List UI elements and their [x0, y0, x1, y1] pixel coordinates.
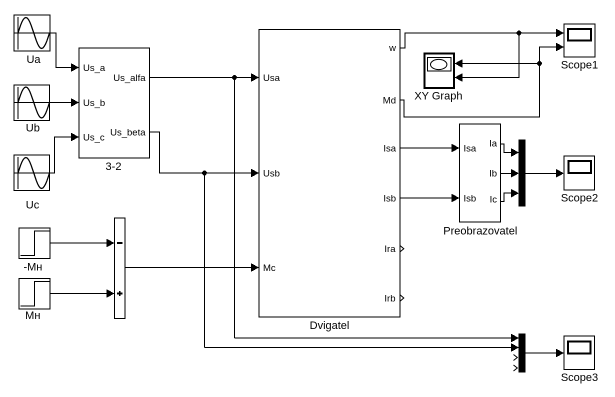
wire Ua to Us_a	[50, 33, 79, 72]
scope Scope2	[564, 156, 595, 190]
step source Mn	[19, 279, 50, 310]
unconnected port Ira	[400, 246, 404, 252]
junction on Usb wire	[202, 171, 207, 176]
svg-text:Isb: Isb	[464, 194, 477, 205]
wire w to Scope1 input 1	[400, 29, 564, 48]
wire Ia to mux2	[501, 144, 520, 157]
converter block Preobrazovatel	[460, 124, 501, 222]
wire Usa branch down to mux3 input 1	[234, 78, 236, 339]
svg-text:Ia: Ia	[489, 139, 498, 150]
wire Us_beta to Usb	[150, 132, 260, 177]
mux2	[519, 140, 525, 206]
svg-text:Scope1: Scope1	[561, 60, 598, 72]
svg-text:Isb: Isb	[383, 194, 396, 205]
svg-text:Usa: Usa	[263, 73, 281, 84]
svg-text:Us_beta: Us_beta	[110, 128, 146, 139]
svg-text:Md: Md	[383, 96, 396, 107]
wire Isb to Preobrazovatel	[400, 194, 460, 203]
svg-text:-Мн: -Мн	[23, 261, 42, 273]
svg-text:Мн: Мн	[25, 310, 40, 322]
sum block	[115, 218, 126, 319]
unconnected mux3 input 4	[514, 365, 518, 371]
svg-text:Scope3: Scope3	[561, 372, 598, 384]
wire Ub to Us_b	[50, 98, 80, 107]
wire mux2 to Scope2	[525, 169, 564, 178]
XY Graph block	[425, 54, 455, 89]
wire Us_alfa to Usa	[150, 73, 260, 82]
svg-text:Mc: Mc	[263, 263, 276, 274]
scope Scope3	[564, 336, 595, 370]
sine source Ua	[14, 15, 50, 51]
wire Usb branch down to mux3 input 2	[204, 173, 206, 348]
svg-text:w: w	[388, 43, 396, 54]
svg-text:Us_c: Us_c	[83, 133, 105, 144]
wire Ib to mux2	[501, 169, 520, 178]
svg-text:Ira: Ira	[384, 244, 396, 255]
mux3	[519, 334, 525, 372]
wire Isa to Preobrazovatel	[400, 144, 460, 153]
junction on Md wire	[537, 61, 542, 66]
wire w branch to XY Graph input 2	[455, 33, 520, 82]
junction on Usa wire	[232, 75, 237, 80]
wire -Mn to sum minus	[50, 239, 115, 248]
svg-text:Ub: Ub	[26, 122, 40, 134]
wire sum to Mc	[125, 263, 259, 272]
sine source Uc	[14, 155, 50, 191]
svg-text:Isa: Isa	[383, 144, 396, 155]
scope Scope1	[564, 24, 595, 57]
svg-text:Us_alfa: Us_alfa	[113, 73, 146, 84]
svg-text:Isa: Isa	[464, 144, 477, 155]
svg-text:Usb: Usb	[263, 169, 280, 180]
svg-text:Scope2: Scope2	[561, 192, 598, 204]
wire Md branch to XY Graph input 1	[455, 59, 540, 68]
motor block Dvigatel	[259, 30, 400, 318]
step source -Mn	[19, 228, 50, 259]
svg-text:Dvigatel: Dvigatel	[310, 320, 350, 332]
svg-text:Us_a: Us_a	[83, 63, 106, 74]
svg-text:Ic: Ic	[490, 195, 498, 206]
junction on w wire	[517, 31, 522, 36]
svg-text:Us_b: Us_b	[83, 98, 105, 109]
svg-text:Irb: Irb	[384, 294, 395, 305]
svg-text:Uc: Uc	[26, 200, 40, 212]
svg-text:Ib: Ib	[489, 169, 497, 180]
transform block 3-2	[79, 48, 150, 158]
wire Ic to mux2	[501, 189, 520, 201]
wire Uc to Us_c	[50, 133, 80, 173]
svg-text:3-2: 3-2	[106, 161, 122, 173]
sine source Ub	[14, 85, 50, 121]
unconnected mux3 input 3	[514, 355, 518, 361]
svg-text:XY Graph: XY Graph	[414, 91, 462, 103]
wire Mn to sum plus	[50, 289, 115, 298]
unconnected port Irb	[400, 295, 404, 301]
svg-text:Preobrazovatel: Preobrazovatel	[443, 226, 517, 238]
wire mux3 to Scope3	[525, 349, 564, 358]
wire Md to Scope1 input 2	[400, 43, 564, 117]
svg-text:Ua: Ua	[26, 54, 41, 66]
